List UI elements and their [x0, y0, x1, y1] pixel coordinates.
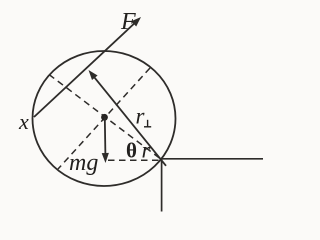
- lever arm r-perp arrowhead: [89, 70, 98, 80]
- lever arm r-perp shaft: [92, 74, 166, 165]
- wheel circle: [33, 51, 176, 186]
- step horizontal surface line: [160, 158, 263, 160]
- paper background: [0, 0, 276, 218]
- mg arrowhead: [102, 153, 109, 163]
- dashed diameter upper-right to lower-left: [58, 68, 150, 169]
- force F line: [34, 21, 138, 118]
- svg-text:F: F: [120, 9, 136, 35]
- svg-text:x: x: [18, 109, 29, 134]
- dashed diameter through corner: [49, 75, 160, 159]
- mg weight arrow shaft: [104, 118, 107, 156]
- svg-text:r: r: [136, 104, 146, 129]
- center of wheel dot: [101, 114, 108, 121]
- dashed horizontal lever arm of mg: [108, 159, 159, 161]
- force F arrowhead: [131, 17, 141, 27]
- svg-text:mg: mg: [69, 150, 98, 176]
- perp subscript symbol: [144, 126, 151, 128]
- svg-text:r: r: [142, 138, 152, 163]
- step vertical face line: [161, 159, 163, 212]
- svg-text:θ: θ: [126, 139, 137, 163]
